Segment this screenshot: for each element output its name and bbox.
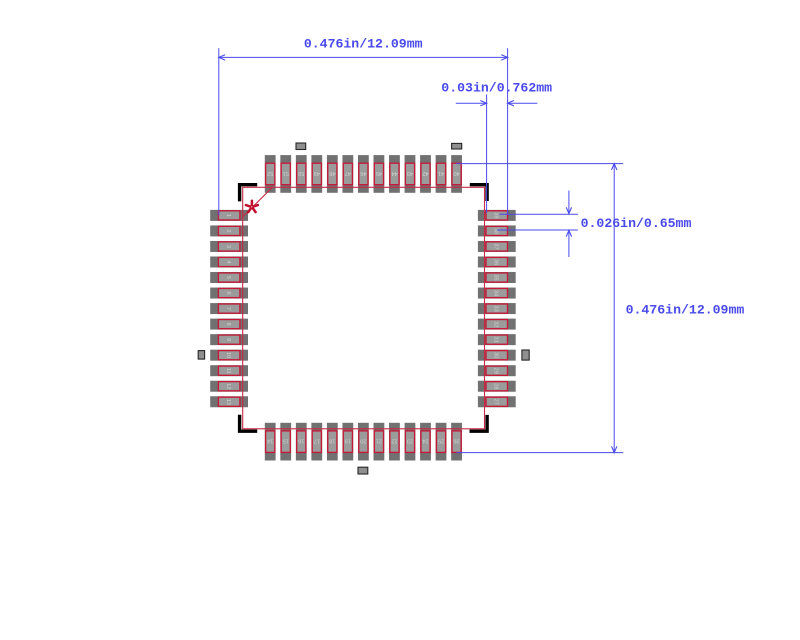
svg-text:49: 49	[314, 170, 320, 176]
svg-text:22: 22	[391, 437, 397, 443]
svg-text:33: 33	[493, 305, 499, 311]
svg-text:48: 48	[329, 170, 335, 176]
svg-text:40: 40	[453, 170, 459, 176]
svg-text:0.476in/12.09mm: 0.476in/12.09mm	[304, 36, 423, 51]
svg-text:30: 30	[493, 352, 499, 358]
svg-text:52: 52	[267, 170, 273, 176]
svg-text:7: 7	[225, 307, 231, 310]
svg-text:24: 24	[422, 437, 428, 443]
svg-text:3: 3	[225, 245, 231, 248]
svg-text:0.03in/0.762mm: 0.03in/0.762mm	[441, 81, 552, 96]
svg-text:26: 26	[453, 437, 459, 443]
svg-text:15: 15	[283, 437, 289, 443]
svg-text:20: 20	[360, 437, 366, 443]
svg-text:9: 9	[225, 338, 231, 341]
svg-text:8: 8	[225, 323, 231, 326]
svg-text:31: 31	[493, 336, 499, 342]
svg-text:36: 36	[493, 259, 499, 265]
svg-text:1: 1	[225, 214, 231, 217]
svg-text:41: 41	[438, 170, 444, 176]
svg-text:0.476in/12.09mm: 0.476in/12.09mm	[626, 302, 745, 317]
svg-text:47: 47	[345, 170, 351, 176]
svg-text:10: 10	[225, 352, 231, 358]
svg-text:32: 32	[493, 321, 499, 327]
svg-text:6: 6	[225, 291, 231, 294]
svg-text:34: 34	[493, 290, 499, 296]
svg-text:21: 21	[376, 437, 382, 443]
svg-text:44: 44	[391, 170, 397, 176]
svg-text:38: 38	[493, 228, 499, 234]
svg-text:25: 25	[438, 437, 444, 443]
svg-text:4: 4	[225, 260, 231, 263]
svg-text:39: 39	[493, 212, 499, 218]
svg-text:14: 14	[267, 437, 273, 443]
svg-text:13: 13	[225, 399, 231, 405]
svg-text:5: 5	[225, 276, 231, 279]
svg-text:51: 51	[283, 170, 289, 176]
svg-text:27: 27	[493, 399, 499, 405]
svg-text:46: 46	[360, 170, 366, 176]
svg-text:2: 2	[225, 229, 231, 232]
svg-text:11: 11	[225, 368, 231, 374]
svg-text:23: 23	[407, 437, 413, 443]
svg-text:0.026in/0.65mm: 0.026in/0.65mm	[581, 216, 692, 231]
svg-text:35: 35	[493, 274, 499, 280]
svg-text:45: 45	[376, 170, 382, 176]
svg-text:50: 50	[298, 170, 304, 176]
svg-text:28: 28	[493, 383, 499, 389]
svg-text:19: 19	[345, 437, 351, 443]
svg-text:37: 37	[493, 243, 499, 249]
svg-text:42: 42	[422, 170, 428, 176]
svg-text:43: 43	[407, 170, 413, 176]
svg-text:12: 12	[225, 383, 231, 389]
svg-text:18: 18	[329, 437, 335, 443]
svg-text:29: 29	[493, 368, 499, 374]
svg-text:16: 16	[298, 437, 304, 443]
svg-text:17: 17	[314, 437, 320, 443]
